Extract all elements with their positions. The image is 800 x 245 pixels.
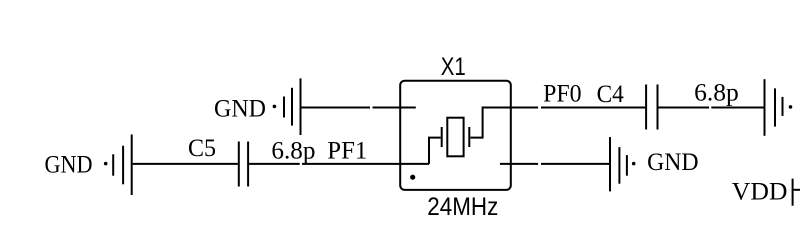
wire: gap to crystal X1 top-left pin	[373, 107, 416, 109]
svg-text:PF1: PF1	[327, 138, 367, 165]
wire: C5 to gap (net PF1)	[249, 163, 300, 165]
wire: C4 to gap	[659, 107, 710, 109]
wire: bottom-left GND to C5	[133, 163, 238, 165]
svg-text:GND: GND	[214, 95, 266, 122]
pin 1 dot (X1)	[410, 175, 415, 180]
ground symbol (top right)	[765, 79, 793, 136]
ground symbol (bottom right)	[610, 137, 636, 191]
ground symbol (bottom left)	[104, 135, 132, 196]
wire: crystal X1 bottom-right pin to gap	[500, 163, 538, 165]
power pin bar (VDD)	[792, 179, 794, 206]
svg-text:24MHz: 24MHz	[427, 193, 498, 221]
svg-text:6.8p: 6.8p	[694, 80, 739, 107]
svg-text:GND: GND	[647, 149, 699, 176]
wire: top-left GND to gap	[302, 107, 371, 109]
wire: VDD stub to edge	[794, 189, 800, 191]
wire: gap to right GND	[711, 107, 763, 109]
svg-text:X1: X1	[441, 53, 466, 81]
svg-text:VDD: VDD	[732, 179, 788, 206]
svg-text:C4: C4	[597, 81, 625, 108]
wire: crystal X1 top-right pin to gap (net PF0)	[511, 107, 538, 109]
svg-text:6.8p: 6.8p	[271, 137, 315, 164]
wire: gap to crystal X1 pin 1	[302, 163, 429, 165]
crystal X1	[400, 81, 511, 190]
svg-text:PF0: PF0	[543, 81, 582, 108]
capacitor C4	[646, 85, 657, 130]
wire: gap to bottom-right GND	[541, 163, 609, 165]
svg-text:GND: GND	[45, 152, 93, 179]
svg-text:C5: C5	[188, 135, 216, 162]
wire: gap to C4	[541, 107, 645, 109]
ground symbol (top left)	[273, 78, 301, 135]
capacitor C5	[239, 142, 248, 187]
